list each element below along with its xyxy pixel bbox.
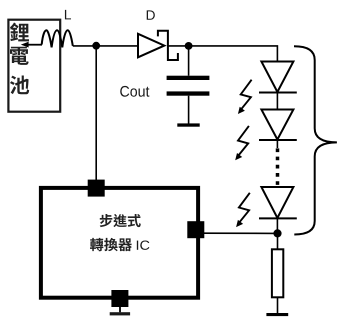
- label D: [147, 10, 155, 19]
- wire node A to IC top pin: [95, 46, 97, 180]
- wire capacitor to ground: [188, 96, 190, 124]
- IC U1 bottom pin (GND): [111, 290, 128, 307]
- LED Dn triangle: [261, 187, 293, 218]
- diode D cathode bar with Schottky hooks: [158, 31, 178, 60]
- LED D2 cathode bar: [259, 139, 297, 141]
- LED D1 triangle: [261, 62, 293, 93]
- battery BT1 (lithium battery box): [8, 20, 60, 112]
- ground (IC): [110, 312, 130, 315]
- label L: [65, 10, 71, 19]
- light emission arrow (LED D2): [238, 126, 249, 156]
- IC label 步進式: [100, 214, 141, 227]
- resistor R1 (sense resistor): [272, 249, 283, 297]
- wire IC bottom pin to ground: [119, 307, 121, 312]
- IC U1 right pin (FB): [187, 221, 204, 238]
- wire node C to resistor R1: [277, 233, 279, 249]
- wire coil to diode anode: [73, 45, 138, 47]
- IC label 轉換器 IC: [90, 238, 132, 251]
- capacitor Cout top plate: [167, 76, 210, 80]
- LED Dn cathode bar: [259, 217, 297, 219]
- wire node B to capacitor: [188, 46, 190, 76]
- light emission arrow (LED Dn): [239, 193, 250, 224]
- wire LED D2 to dashed continuation: [276, 140, 278, 148]
- wire IC right pin to node C: [204, 232, 278, 234]
- light emission arrow (LED D1): [240, 80, 251, 111]
- wire LED Dn to node C: [276, 218, 278, 233]
- node A junction dot: [92, 42, 100, 50]
- current arrow into battery: [26, 44, 42, 46]
- node C junction dot (LED/resistor/IC FB): [273, 229, 281, 237]
- capacitor Cout bottom plate: [167, 91, 210, 95]
- LED D1 cathode bar: [259, 92, 297, 94]
- battery label 鋰電池 (vertical): [10, 23, 29, 95]
- brace (LED string grouping): [294, 46, 337, 234]
- IC U1 (step-up converter) box: [41, 188, 198, 298]
- wire LED D1 to LED D2: [276, 93, 278, 110]
- dashed continuation (more LEDs): [276, 148, 280, 185]
- diode D (Schottky) triangle: [138, 34, 164, 58]
- label Cout: [120, 86, 149, 97]
- wire diode cathode to LED string: [168, 46, 278, 62]
- wire resistor R1 to ground: [277, 297, 279, 313]
- IC U1 top pin (VIN/SW): [88, 180, 105, 197]
- node B junction dot (diode/cap): [185, 42, 193, 50]
- inductor L coil: [42, 30, 73, 47]
- LED D2 triangle: [261, 110, 293, 140]
- ground (resistor): [266, 313, 288, 316]
- ground (capacitor): [177, 123, 199, 126]
